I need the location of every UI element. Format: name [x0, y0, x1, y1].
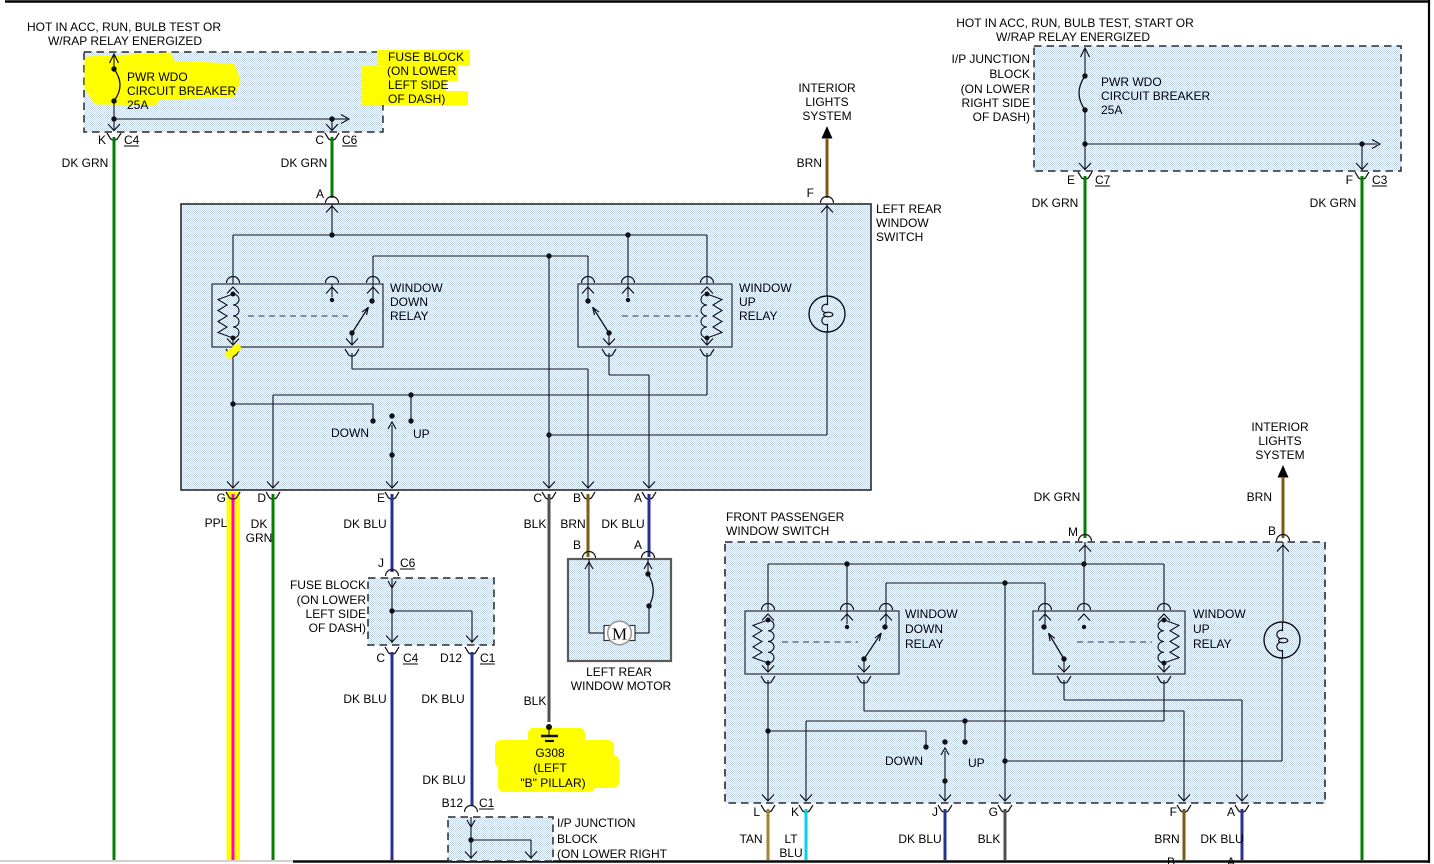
svg-text:SWITCH: SWITCH [876, 230, 923, 244]
svg-text:RIGHT SIDE: RIGHT SIDE [962, 96, 1030, 110]
wire CB1 output to C6 [114, 115, 349, 132]
K4 arm lever [1049, 633, 1064, 659]
svg-text:(ON LOWER: (ON LOWER [961, 82, 1031, 96]
svg-text:DK GRN: DK GRN [1032, 196, 1079, 210]
svg-text:E: E [1067, 173, 1075, 187]
K3 dashed link [782, 641, 858, 643]
lamp DS1 (S1 illumination) [809, 296, 845, 332]
svg-text:OF DASH): OF DASH) [388, 92, 445, 106]
K3 coil exit to L [761, 663, 775, 801]
circuit breaker CB2 PWR WDO 25A [1079, 48, 1090, 170]
svg-text:A: A [1227, 855, 1235, 864]
terminal B (motor) [573, 538, 596, 558]
svg-text:FUSE BLOCK: FUSE BLOCK [290, 578, 366, 592]
K4 pin entry [1078, 604, 1091, 621]
arrow B entry [1277, 545, 1289, 552]
window up relay K2 (S1) [578, 284, 732, 347]
K3 switch arm [845, 624, 888, 661]
svg-text:I/P JUNCTION: I/P JUNCTION [557, 816, 635, 830]
fuse block FB1 (top left) [84, 52, 383, 132]
K3 arm lever [864, 633, 881, 659]
wire DK BLU E to C6 [391, 494, 394, 572]
arrow A entry [326, 206, 338, 213]
wire DK BLU D12 to B12 [471, 652, 474, 806]
K4 switch exit to A [1057, 659, 1248, 801]
svg-text:DOWN: DOWN [905, 622, 943, 636]
svg-text:RELAY: RELAY [905, 637, 943, 651]
svg-text:DK BLU: DK BLU [898, 832, 941, 846]
terminal A (S1 top) [316, 187, 339, 203]
wire DK BLU C4 down [391, 652, 394, 860]
svg-text:K: K [98, 133, 106, 147]
terminal G (S1 bottom) [217, 491, 240, 505]
svg-text:BLOCK: BLOCK [989, 67, 1030, 81]
svg-text:E: E [377, 491, 385, 505]
K1 coil entry [227, 277, 240, 294]
svg-text:UP: UP [739, 295, 756, 309]
wire F to lamp DS1 [826, 204, 828, 296]
svg-text:B: B [573, 491, 581, 505]
window down relay K1 (S1) [212, 284, 383, 347]
svg-text:WINDOW: WINDOW [905, 607, 958, 621]
terminal A (S1 bottom) [634, 491, 656, 505]
K3 contact entry [880, 604, 893, 625]
wire PPL G [232, 494, 235, 860]
svg-text:G308: G308 [535, 746, 565, 760]
bus rail upper (S1) [233, 232, 707, 284]
M1 brush wire left [589, 559, 605, 633]
arrow K exit [108, 124, 120, 131]
svg-text:D12: D12 [440, 651, 462, 665]
svg-text:25A: 25A [127, 98, 148, 112]
svg-text:W/RAP RELAY ENERGIZED: W/RAP RELAY ENERGIZED [48, 34, 202, 48]
svg-text:BRN: BRN [1247, 490, 1272, 504]
svg-text:PPL: PPL [205, 516, 228, 530]
wire DK GRN K/C4 down left side [113, 137, 116, 860]
terminal G (S2 bottom) [989, 805, 1012, 819]
K2 arm lever [593, 307, 609, 333]
K2 switch arm [585, 298, 630, 336]
svg-text:UP: UP [413, 427, 430, 441]
page top border [5, 0, 1430, 2]
terminal D (S1 bottom) [257, 491, 280, 505]
svg-text:G: G [217, 491, 226, 505]
terminal M (S2 top) [1068, 525, 1092, 541]
svg-text:TAN: TAN [739, 832, 762, 846]
svg-text:J: J [932, 805, 938, 819]
svg-text:LEFT SIDE: LEFT SIDE [388, 78, 448, 92]
svg-text:DK BLU: DK BLU [421, 692, 464, 706]
svg-text:F: F [1170, 805, 1177, 819]
svg-text:UP: UP [968, 756, 985, 770]
svg-text:C4: C4 [403, 651, 419, 665]
wire BRN to interior lights (right) [1282, 477, 1285, 538]
bus rail upper (S2) [768, 561, 1164, 611]
K1 contact entry [367, 277, 380, 300]
svg-text:BRN: BRN [797, 156, 822, 170]
svg-text:C6: C6 [342, 133, 358, 147]
svg-text:C3: C3 [1372, 173, 1388, 187]
svg-text:DK BLU: DK BLU [422, 773, 465, 787]
arrow to interior lights (right) [1278, 465, 1289, 478]
svg-text:DK BLU: DK BLU [343, 692, 386, 706]
label WINDOW UP RELAY (S1) [739, 281, 792, 323]
svg-text:FUSE BLOCK: FUSE BLOCK [388, 50, 464, 64]
svg-text:C1: C1 [480, 651, 496, 665]
wire DK BLU A to motor [648, 494, 651, 557]
JB2 internal wires [465, 817, 537, 859]
wire G (S2) [999, 583, 1011, 801]
wire DK BLU A (S2) [1241, 809, 1244, 860]
terminal L (S2 bottom) [753, 805, 775, 819]
svg-text:A: A [634, 491, 642, 505]
page bottom left edge [0, 860, 293, 862]
svg-text:B: B [1167, 855, 1175, 864]
svg-text:C: C [533, 491, 542, 505]
svg-text:DOWN: DOWN [331, 426, 369, 440]
svg-text:B12: B12 [442, 796, 464, 810]
wire lamp DS1 to C [549, 332, 827, 435]
svg-text:L: L [753, 805, 760, 819]
terminal K C4 [98, 133, 121, 147]
circuit breaker CB1 PWR WDO 25A [110, 54, 121, 131]
arrow C exit [326, 124, 338, 131]
front passenger window switch S2 [725, 542, 1325, 803]
wire A to bus [331, 204, 333, 235]
terminal F C3 [1346, 172, 1369, 187]
svg-text:WINDOW SWITCH: WINDOW SWITCH [726, 524, 829, 538]
wire CB2 output to C3 [1085, 140, 1380, 171]
svg-text:OF DASH): OF DASH) [309, 621, 366, 635]
svg-text:BLOCK: BLOCK [557, 832, 598, 846]
wire DK GRN C6 to switch A [331, 137, 334, 198]
terminal A (motor) [634, 538, 655, 558]
svg-text:BLU: BLU [779, 846, 802, 860]
terminal E C7 [1067, 172, 1092, 187]
svg-text:FRONT PASSENGER: FRONT PASSENGER [726, 510, 845, 524]
K4 relay coil [1164, 620, 1179, 663]
svg-text:LEFT SIDE: LEFT SIDE [306, 607, 366, 621]
highlight over FUSE BLOCK label [361, 50, 470, 105]
svg-text:BRN: BRN [1154, 832, 1179, 846]
wire TAN L [767, 809, 770, 860]
wire B to lamp DS2 [1282, 542, 1284, 622]
page right border [1428, 0, 1430, 863]
ip junction block JB2 (bottom) [448, 817, 553, 861]
M1 entry arrows [585, 562, 652, 569]
svg-text:BLK: BLK [524, 517, 547, 531]
wire DK BLU J [944, 809, 947, 860]
svg-text:WINDOW: WINDOW [739, 281, 792, 295]
terminal F (S1 top) [807, 186, 834, 203]
label I/P JUNCTION BLOCK (bottom) [557, 816, 668, 861]
K3 pin entry [841, 604, 854, 624]
label LEFT REAR WINDOW SWITCH [876, 202, 942, 244]
svg-text:RELAY: RELAY [739, 309, 777, 323]
K2 coil exit rail [700, 338, 714, 395]
svg-text:G: G [989, 805, 998, 819]
terminal K (S2 bottom) [791, 805, 813, 819]
left rear window switch S1 [181, 204, 871, 490]
wire LT BLU K [805, 809, 808, 860]
K4 coil entry [1158, 604, 1171, 621]
node UP contact (S2) [962, 721, 967, 745]
svg-text:F: F [807, 186, 814, 200]
label HOT IN ACC (left) [27, 20, 221, 48]
svg-text:C: C [376, 651, 385, 665]
rocker common J (S2) [939, 739, 951, 801]
label G308 LEFT B PILLAR [520, 746, 585, 790]
arrow M entry [1079, 545, 1091, 552]
svg-text:B: B [573, 538, 581, 552]
svg-text:DK GRN: DK GRN [62, 156, 109, 170]
K3 coil entry [762, 604, 775, 621]
ip junction block JB1 (top right) [1034, 46, 1401, 171]
K1 switch arm [330, 298, 375, 336]
terminal B12 C1 (I/P) [442, 796, 478, 812]
svg-text:GRN: GRN [246, 531, 273, 545]
svg-text:F: F [1346, 173, 1353, 187]
svg-text:C6: C6 [400, 556, 416, 570]
K1 switch exit to B [345, 333, 594, 488]
svg-text:A: A [316, 187, 324, 201]
arrow F exit [1356, 163, 1368, 170]
wire BRN B to motor [587, 494, 590, 557]
svg-text:DK GRN: DK GRN [1310, 196, 1357, 210]
svg-text:DK BLU: DK BLU [601, 517, 644, 531]
K1 relay coil [218, 294, 233, 338]
wire DK GRN F/C3 down right side [1361, 176, 1364, 860]
terminal A (S2 bottom) [1227, 805, 1249, 819]
terminal D12 C1 (FB2) [440, 647, 479, 665]
terminal B (S2 top) [1268, 524, 1290, 541]
svg-text:OF DASH): OF DASH) [973, 110, 1030, 124]
svg-text:RELAY: RELAY [390, 309, 428, 323]
highlight over G308 label [495, 728, 619, 792]
svg-text:PWR WDO: PWR WDO [127, 70, 188, 84]
label PWR WDO CIRCUIT BREAKER 25A [127, 70, 236, 112]
svg-text:DOWN: DOWN [885, 754, 923, 768]
node DOWN contact (S1) [233, 404, 376, 424]
wire to down relay switch [373, 253, 588, 284]
highlight PPL wire [227, 492, 241, 860]
K3 relay coil [753, 620, 768, 663]
svg-text:WINDOW: WINDOW [390, 281, 443, 295]
svg-text:HOT IN ACC, RUN, BULB TEST OR: HOT IN ACC, RUN, BULB TEST OR [27, 20, 221, 34]
svg-text:BLK: BLK [524, 694, 547, 708]
svg-text:LIGHTS: LIGHTS [1258, 434, 1301, 448]
K1 arm lever [352, 307, 368, 333]
svg-text:SYSTEM: SYSTEM [802, 109, 851, 123]
K1 dashed link [248, 315, 348, 317]
arrow F entry [821, 206, 833, 213]
label WINDOW DOWN RELAY (S2) [905, 607, 958, 651]
svg-text:BRN: BRN [560, 517, 585, 531]
svg-text:DK BLU: DK BLU [1200, 832, 1243, 846]
svg-text:INTERIOR: INTERIOR [798, 81, 856, 95]
label WINDOW UP RELAY (S2) [1193, 607, 1246, 651]
window down relay K3 (S2) [745, 611, 899, 674]
svg-text:W/RAP RELAY ENERGIZED: W/RAP RELAY ENERGIZED [996, 30, 1150, 44]
svg-text:(LEFT: (LEFT [533, 761, 567, 775]
svg-text:C4: C4 [124, 133, 140, 147]
rocker common E (S1) [386, 413, 398, 488]
M1 motor symbol [604, 621, 635, 645]
svg-text:PWR WDO: PWR WDO [1101, 75, 1162, 89]
svg-text:WINDOW MOTOR: WINDOW MOTOR [571, 679, 672, 693]
label PWR WDO CIRCUIT BREAKER 25A (right) [1101, 75, 1210, 117]
svg-text:B: B [1268, 524, 1276, 538]
terminal J C6 (fuse block) [378, 556, 399, 576]
svg-text:RELAY: RELAY [1193, 637, 1231, 651]
svg-text:A: A [1227, 805, 1235, 819]
wire BLK G [1004, 809, 1007, 860]
arrow to interior lights (left) [822, 126, 833, 139]
window up relay K4 (S2) [1033, 611, 1185, 674]
wire C to lamp junction [543, 256, 555, 488]
svg-text:HOT IN ACC, RUN, BULB TEST, ST: HOT IN ACC, RUN, BULB TEST, START OR [956, 16, 1194, 30]
terminal G arc over highlight [226, 492, 240, 499]
highlight mark at K1 coil exit [224, 343, 242, 360]
svg-text:M: M [612, 625, 627, 644]
K2 dashed link [622, 315, 698, 317]
svg-text:LEFT REAR: LEFT REAR [586, 665, 652, 679]
terminal F (S2 bottom) [1170, 805, 1191, 819]
svg-text:SYSTEM: SYSTEM [1255, 448, 1304, 462]
K4 switch arm [1041, 624, 1086, 661]
wire BLK C to ground [548, 494, 551, 722]
svg-text:DK: DK [251, 517, 268, 531]
K2 coil entry [701, 277, 714, 294]
svg-text:DK BLU: DK BLU [343, 517, 386, 531]
svg-text:(ON LOWER: (ON LOWER [297, 593, 367, 607]
page bottom border [293, 860, 1430, 863]
wire DK GRN E/C7 to M [1084, 176, 1087, 538]
svg-text:A: A [634, 538, 642, 552]
bus rail K (S2) [800, 718, 1164, 801]
svg-text:WINDOW: WINDOW [876, 216, 929, 230]
K1 pin entry [326, 277, 339, 298]
svg-text:WINDOW: WINDOW [1193, 607, 1246, 621]
K2 switch exit to A [602, 333, 655, 488]
label INTERIOR LIGHTS SYSTEM (right) [1251, 420, 1309, 462]
wire lamp DS2 to G [1005, 658, 1282, 761]
svg-text:UP: UP [1193, 622, 1210, 636]
label FUSE BLOCK (mid) [290, 578, 366, 635]
wire to relay contacts (S2) [886, 580, 1045, 611]
K4 coil exit to K rail [1157, 663, 1171, 721]
svg-text:DOWN: DOWN [390, 295, 428, 309]
K2 contact entry [582, 277, 595, 300]
highlight over circuit breaker CB1 [88, 56, 237, 102]
K4 dashed link [1077, 641, 1152, 643]
svg-text:LT: LT [784, 832, 798, 846]
K2 pin entry [622, 235, 635, 297]
node DOWN contact (S2) [768, 731, 929, 750]
terminal C (S1 bottom) [533, 491, 556, 505]
svg-text:K: K [791, 805, 799, 819]
label LT BLU [779, 832, 802, 860]
svg-text:LIGHTS: LIGHTS [805, 95, 848, 109]
svg-text:DK GRN: DK GRN [1034, 490, 1081, 504]
svg-text:C1: C1 [479, 796, 495, 810]
svg-text:CIRCUIT BREAKER: CIRCUIT BREAKER [1101, 89, 1210, 103]
wire BRN F [1183, 809, 1186, 860]
terminal E (S1 bottom) [377, 491, 399, 505]
label INTERIOR LIGHTS SYSTEM (left) [798, 81, 856, 123]
svg-text:J: J [378, 556, 384, 570]
svg-text:C7: C7 [1095, 173, 1111, 187]
bus rail lower (S1) [267, 392, 707, 488]
svg-text:"B" PILLAR): "B" PILLAR) [520, 776, 585, 790]
svg-text:C: C [315, 133, 324, 147]
svg-text:M: M [1068, 525, 1078, 539]
terminal C C4 (FB2) [376, 647, 399, 665]
label WINDOW DOWN RELAY (S1) [390, 281, 443, 323]
label HOT IN ACC (right) [956, 16, 1194, 44]
terminal C C6 [315, 133, 339, 147]
wire DK GRN D [272, 494, 275, 860]
svg-text:BLK: BLK [978, 832, 1001, 846]
K3 switch exit to F [857, 659, 1190, 801]
wire BRN to interior lights (left) [826, 138, 829, 198]
svg-text:LEFT REAR: LEFT REAR [876, 202, 942, 216]
svg-text:DK GRN: DK GRN [281, 156, 328, 170]
label DK GRN (D) [246, 517, 273, 545]
label FUSE BLOCK (ON LOWER LEFT SIDE OF DASH) top [387, 50, 464, 106]
svg-text:I/P JUNCTION: I/P JUNCTION [952, 52, 1030, 66]
ground G308 [541, 724, 558, 741]
left rear window motor M1 [568, 559, 671, 661]
K4 contact entry [1039, 604, 1052, 625]
lamp DS2 (S2 illumination) [1264, 622, 1300, 658]
wire M to bus (S2) [1084, 542, 1086, 564]
label FRONT PASSENGER WINDOW SWITCH [726, 510, 845, 538]
svg-text:D: D [257, 491, 266, 505]
svg-text:INTERIOR: INTERIOR [1251, 420, 1309, 434]
K2 relay coil [707, 294, 722, 338]
fuse block FB2 (mid left) [368, 578, 494, 645]
svg-text:25A: 25A [1101, 103, 1122, 117]
node UP contact (S1) [408, 395, 413, 424]
FB2 internal wires [386, 578, 478, 643]
svg-text:CIRCUIT BREAKER: CIRCUIT BREAKER [127, 84, 236, 98]
terminal J (S2 bottom) [932, 805, 952, 819]
M1 thermal breaker [635, 559, 653, 633]
svg-text:(ON LOWER: (ON LOWER [387, 64, 457, 78]
terminal B (S1 bottom) [573, 491, 595, 505]
arrow E exit [1079, 163, 1091, 170]
label I/P JUNCTION BLOCK (top right) [952, 52, 1031, 124]
K1 coil exit to G [226, 338, 240, 488]
svg-text:(ON LOWER RIGHT: (ON LOWER RIGHT [557, 847, 668, 861]
label LEFT REAR WINDOW MOTOR [571, 665, 672, 693]
